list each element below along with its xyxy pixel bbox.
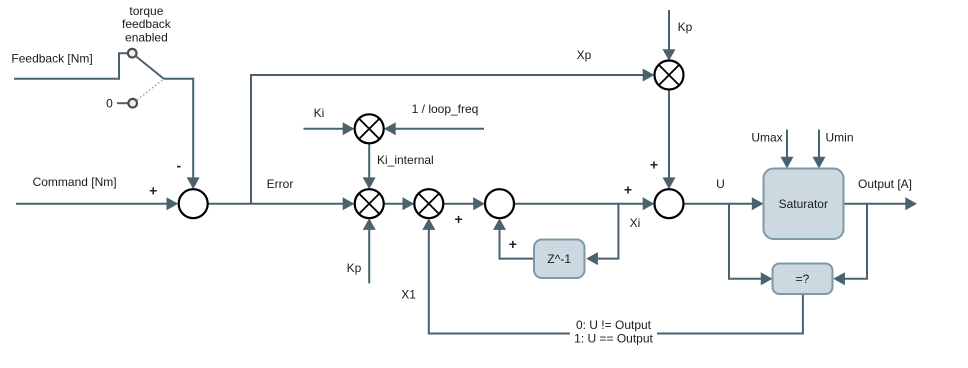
svg-text:Umax: Umax xyxy=(751,131,782,145)
svg-text:Z^-1: Z^-1 xyxy=(547,252,571,266)
svg-text:1 / loop_freq: 1 / loop_freq xyxy=(412,102,479,116)
svg-text:1: U == Output: 1: U == Output xyxy=(574,332,653,346)
svg-text:Kp: Kp xyxy=(347,261,362,275)
svg-text:+: + xyxy=(624,181,632,197)
svg-text:Xi: Xi xyxy=(630,216,641,230)
svg-text:Xp: Xp xyxy=(577,48,592,62)
svg-text:Kp: Kp xyxy=(678,20,693,34)
svg-text:enabled: enabled xyxy=(125,31,168,45)
svg-text:=?: =? xyxy=(796,272,810,286)
svg-text:Feedback [Nm]: Feedback [Nm] xyxy=(11,52,92,66)
svg-text:+: + xyxy=(455,211,463,227)
svg-text:Error: Error xyxy=(267,177,294,191)
svg-text:Output [A]: Output [A] xyxy=(858,177,912,191)
svg-text:U: U xyxy=(716,177,725,191)
svg-text:0: 0 xyxy=(106,96,113,110)
svg-text:Umin: Umin xyxy=(825,131,853,145)
svg-text:torque: torque xyxy=(129,4,163,18)
svg-text:+: + xyxy=(149,183,157,199)
svg-text:-: - xyxy=(176,157,181,173)
svg-text:feedback: feedback xyxy=(122,17,172,31)
svg-text:X1: X1 xyxy=(401,287,416,301)
svg-text:0: U != Output: 0: U != Output xyxy=(576,318,652,332)
svg-text:Ki: Ki xyxy=(314,106,325,120)
svg-text:Saturator: Saturator xyxy=(779,197,828,211)
svg-text:Ki_internal: Ki_internal xyxy=(377,153,434,167)
svg-text:+: + xyxy=(509,236,517,252)
svg-text:+: + xyxy=(650,156,658,172)
svg-text:Command [Nm]: Command [Nm] xyxy=(33,175,117,189)
